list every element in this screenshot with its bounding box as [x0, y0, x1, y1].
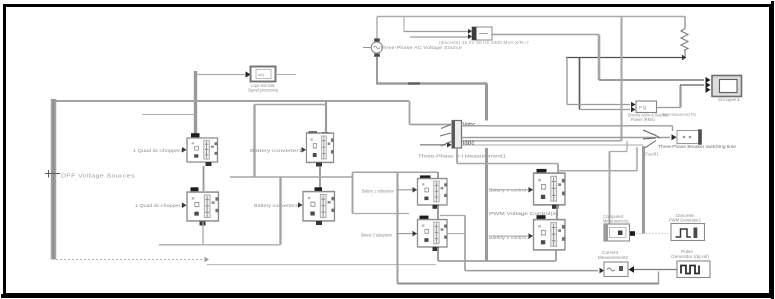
- node B2b top port: [315, 187, 323, 191]
- node C5a bottom port: [552, 205, 559, 209]
- wire C5a input: [489, 189, 533, 191]
- svg-text:Battery converter2: Battery converter2: [254, 203, 299, 208]
- wire C5b input: [489, 235, 533, 237]
- wire node A down to M1: [485, 84, 488, 121]
- wire y163 run: [457, 163, 558, 165]
- wire B1b drop: [202, 222, 204, 245]
- node V1 top port: [374, 38, 380, 41]
- node arrowhead U2 input: [246, 71, 251, 77]
- svg-text:Battery 2 subsystem: Battery 2 subsystem: [361, 232, 392, 237]
- wire M1 out3: [462, 140, 622, 142]
- wire V1 left tick: [363, 47, 371, 49]
- block C4b (IGBT inverter 2) (converter subsystem): [417, 220, 447, 247]
- block D4 (pulse generator): [677, 261, 710, 278]
- block B2b (battery converter 2) (converter subsystem): [303, 192, 335, 221]
- svg-text:Battery 1 subsystem: Battery 1 subsystem: [362, 189, 394, 194]
- node C4a top port: [420, 175, 431, 179]
- wire mux bottom stub: [456, 148, 458, 164]
- svg-text:PWM Generator1: PWM Generator1: [669, 217, 702, 222]
- wire breaker drop x637: [636, 147, 638, 171]
- wire M1 out1 drop: [672, 126, 674, 131]
- wire rms in1 drop: [566, 58, 568, 105]
- wire y170 run: [558, 170, 637, 172]
- svg-text:DFF Voltage Sources: DFF Voltage Sources: [61, 173, 135, 179]
- svg-text:Scope1: Scope1: [718, 97, 741, 102]
- block D1 (computed measurement): [604, 224, 630, 241]
- node C4b top port: [420, 216, 429, 220]
- wire scope in2 riser: [679, 85, 681, 108]
- wire faint return y264: [207, 264, 436, 266]
- wire x280 trunk: [279, 177, 281, 245]
- node B2a input arrowhead: [302, 147, 307, 153]
- block F1 (three-phase breaker): [677, 129, 702, 144]
- node fan arrows into M1: [440, 125, 451, 147]
- wire C4b out upper: [440, 215, 465, 217]
- wire V1 bottom lead: [376, 57, 378, 84]
- wire mid trunk x254: [253, 105, 255, 178]
- wire M1 out2: [462, 137, 671, 139]
- node B1b top port: [191, 187, 199, 191]
- wire C4b out: [448, 233, 466, 235]
- svg-text:1 Quad dc-chopper1: 1 Quad dc-chopper1: [133, 148, 184, 153]
- wire long horizontal y100: [52, 100, 409, 102]
- node scope in3 arrowhead: [706, 87, 711, 93]
- wire C4a top stub: [437, 172, 439, 178]
- wire left trunk vertical: [51, 99, 57, 260]
- node C4b bottom port: [433, 247, 440, 251]
- node B2a bottom port: [316, 163, 322, 167]
- node C5a top port: [537, 169, 547, 173]
- wire chopper feed vertical: [194, 71, 197, 134]
- wire dark dash on ac bus: [408, 82, 420, 84]
- node grid annotation symbol: [45, 170, 60, 178]
- svg-text:Generator (dq ref): Generator (dq ref): [671, 254, 710, 259]
- wire tap into U2: [197, 74, 245, 76]
- wire C4b input: [396, 233, 417, 235]
- node C4b input arrowhead: [413, 231, 418, 237]
- block B1b (1-quadrant chopper 2) (converter subsystem): [187, 192, 219, 221]
- node C4a bottom port: [433, 205, 440, 209]
- wire drop to mux input: [409, 101, 411, 125]
- wire B1a to B1b: [203, 166, 205, 191]
- node C5b top port: [537, 215, 546, 219]
- block U3 (voltage measurement): [472, 27, 492, 40]
- wire x352 drop: [352, 173, 354, 214]
- wire x397 trunk: [396, 172, 398, 283]
- block U2 (logic/display subsystem): [251, 67, 276, 82]
- wire M1 out1: [462, 125, 673, 127]
- node U3 in2 arrowhead: [468, 34, 472, 39]
- svg-text:Three-Phase V-I Measurement1: Three-Phase V-I Measurement1: [418, 154, 507, 159]
- wire M1 out4: [462, 144, 644, 146]
- wire mid horizontal y177: [230, 176, 353, 178]
- svg-text:Signal processing: Signal processing: [248, 88, 278, 93]
- svg-text:Measurement1: Measurement1: [603, 219, 630, 224]
- wire V1 top lead: [376, 17, 378, 42]
- node fan junction F1: [643, 130, 660, 149]
- block C5b (PWM inverter 2) (converter subsystem): [534, 220, 566, 250]
- svg-text:(discrete) 25 kV 50 Hz 1000: (discrete) 25 kV 50 Hz 1000 MVA X/R=7: [439, 40, 529, 45]
- block B2a (battery converter 1) (converter subsystem): [306, 133, 333, 162]
- wire dashed return: [56, 259, 203, 261]
- wire C4a to C4b: [437, 206, 439, 220]
- wire corner y104: [255, 104, 327, 106]
- svg-text:Measurement2: Measurement2: [598, 255, 629, 260]
- node B2a top port left: [309, 131, 318, 136]
- node breaker in arrowhead: [672, 134, 677, 140]
- wire bottom bus y283: [398, 283, 660, 285]
- svg-text:1 Quad dc-chopper2: 1 Quad dc-chopper2: [135, 203, 184, 208]
- node dashed arrowhead: [205, 257, 210, 263]
- wire y172 run: [353, 171, 439, 173]
- wire D3 input run: [465, 270, 598, 272]
- svg-text:Three-Phase AC Voltage Source: Three-Phase AC Voltage Source: [380, 45, 462, 51]
- wire thick drop x486: [485, 148, 488, 261]
- wire stub y114: [142, 114, 194, 116]
- node scope in1 arrowhead: [706, 77, 711, 83]
- svg-text:Battery converter1: Battery converter1: [250, 148, 303, 153]
- node V1 bottom port: [374, 54, 380, 57]
- block SC1 (Scope): [712, 76, 742, 97]
- wire U3 in2: [410, 36, 468, 38]
- node D3 input arrowhead: [600, 268, 605, 274]
- wire B2a feed: [325, 101, 327, 133]
- svg-text:Fault1: Fault1: [645, 151, 660, 156]
- node B2a top port right: [322, 132, 329, 135]
- block D3 (current measurement): [604, 262, 628, 277]
- node B2b bottom port: [316, 221, 322, 225]
- wire scope in2: [680, 84, 704, 86]
- wire rms out: [657, 107, 681, 109]
- node rms in2 arrowhead: [631, 107, 636, 113]
- wire top bus V1-R1: [377, 16, 685, 18]
- wire dark mux input2: [420, 144, 446, 146]
- wire C4b drop: [437, 248, 439, 262]
- block C5a (PWM inverter 1) (converter subsystem): [534, 173, 566, 205]
- wire left trunk core: [53, 99, 55, 260]
- wire C5a to C5b: [556, 206, 558, 220]
- wire C4a input: [396, 189, 417, 191]
- node scope in2 arrowhead: [706, 82, 711, 88]
- node B1a bottom port: [206, 162, 212, 166]
- wire rms in2 drop: [579, 58, 581, 110]
- resistor R1 (series RLC branch): [681, 17, 688, 58]
- node arrowhead into R1: [682, 55, 687, 61]
- wire rms in2: [579, 109, 630, 111]
- wire scope in1: [599, 79, 704, 81]
- wire C5a top stub: [557, 164, 559, 173]
- block U4 (discrete RMS / power measurement): [636, 101, 657, 113]
- node D3 right arrowhead: [629, 266, 635, 273]
- svg-text:Power (RMS): Power (RMS): [631, 117, 656, 122]
- block D2 (discrete PWM generator): [671, 224, 705, 241]
- node mux in2 arrowhead: [447, 142, 452, 148]
- wire x627 link: [626, 141, 628, 152]
- wire y151 link: [610, 151, 628, 153]
- node C5b input arrowhead: [529, 233, 534, 239]
- wire D1 feed: [609, 152, 611, 224]
- wire D1 dotted link: [636, 233, 669, 235]
- wire mux input: [410, 124, 452, 126]
- wire U3 out: [492, 34, 599, 36]
- wire bottom bus end stub: [658, 272, 660, 284]
- wire B2a to B2b: [319, 166, 321, 188]
- block M1 (three-phase V-I measurement bus): [452, 121, 462, 149]
- wire U3 in1 riser: [403, 17, 405, 32]
- node B2b input arrowhead: [298, 202, 303, 208]
- wire U3 in1: [404, 31, 468, 33]
- wire scope feed 1 vertical: [598, 35, 601, 81]
- wire thick bar x643: [642, 146, 645, 234]
- node rms in1 arrowhead: [631, 102, 636, 108]
- wire measure line dark: [566, 57, 682, 59]
- node B1a input arrowhead: [182, 147, 187, 153]
- node B1b bottom port: [200, 222, 206, 226]
- svg-text:Three-Phase Breaker switching: Three-Phase Breaker switching time: [658, 144, 737, 149]
- node D1 out arrowhead: [630, 231, 635, 236]
- wire V1 to node A: [376, 82, 487, 84]
- svg-text:Power Measurement P/Q: Power Measurement P/Q: [662, 112, 696, 117]
- wire y245 run: [159, 244, 281, 246]
- node U3 in1 arrowhead: [468, 29, 472, 34]
- node B1b input arrowhead: [182, 202, 187, 208]
- block B1a (1-quadrant chopper 1) (converter subsystem): [187, 138, 218, 162]
- wire bottom link y261: [438, 260, 556, 262]
- node C5a input arrowhead: [529, 187, 534, 193]
- svg-text:P Q: P Q: [639, 105, 647, 110]
- wire long drop x621: [620, 17, 622, 141]
- node B1a top port: [191, 133, 200, 137]
- wire U2 output: [276, 74, 297, 76]
- svg-text:PWM Voltage Control(s): PWM Voltage Control(s): [489, 211, 559, 216]
- block C4a (IGBT inverter 1) (converter subsystem): [417, 179, 447, 205]
- source V1 (AC Voltage Source): [371, 42, 382, 53]
- wire D4 to D3: [634, 269, 677, 271]
- node C4a input arrowhead: [413, 187, 418, 193]
- wire rms in1: [567, 104, 630, 106]
- wire x465 drop: [464, 216, 466, 271]
- wire C5b bottom stub: [555, 251, 557, 262]
- svg-text:u(t): u(t): [258, 72, 265, 77]
- wire y213 run: [353, 213, 410, 215]
